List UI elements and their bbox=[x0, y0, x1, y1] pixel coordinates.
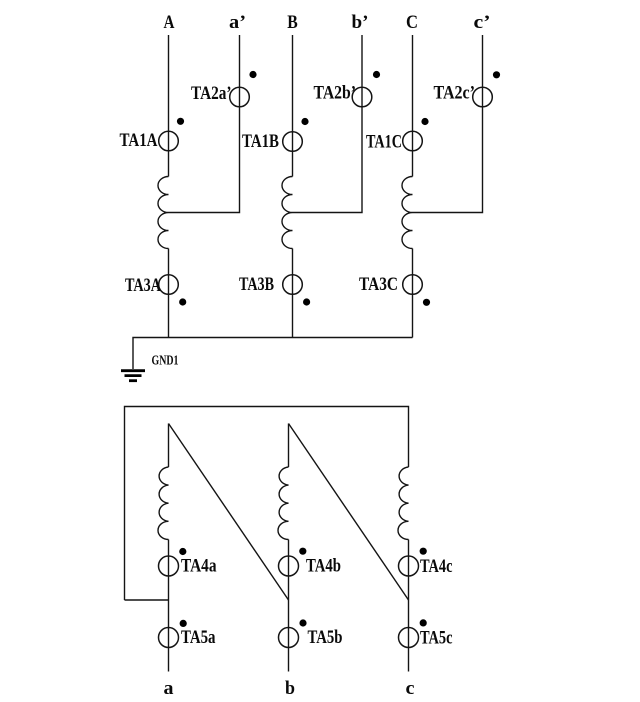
CT TA2b' circle bbox=[352, 87, 372, 107]
svg-text:GND1: GND1 bbox=[152, 354, 179, 369]
CT TA1C polarity dot bbox=[421, 118, 428, 125]
svg-text:a’: a’ bbox=[229, 12, 246, 33]
svg-text:c’: c’ bbox=[474, 12, 491, 33]
CT TA3A polarity dot bbox=[179, 298, 186, 305]
CT TA3A circle bbox=[159, 275, 179, 295]
wire a' with tap to coil A bbox=[169, 35, 240, 213]
CT TA5b polarity dot bbox=[299, 619, 306, 626]
svg-text:b’: b’ bbox=[352, 12, 369, 33]
CT TA4c polarity dot bbox=[420, 548, 427, 555]
svg-text:c: c bbox=[406, 678, 415, 699]
svg-text:A: A bbox=[164, 12, 175, 33]
CT TA5a polarity dot bbox=[180, 620, 187, 627]
svg-text:TA5b: TA5b bbox=[308, 627, 343, 648]
CT TA4b polarity dot bbox=[299, 548, 306, 555]
CT TA3B polarity dot bbox=[303, 298, 310, 305]
svg-text:TA3A: TA3A bbox=[125, 275, 161, 296]
wire phase c coil to bottom bbox=[408, 540, 410, 672]
wire phase A lower bbox=[168, 249, 170, 338]
CT TA2c' circle bbox=[473, 87, 493, 107]
svg-text:TA2b’: TA2b’ bbox=[314, 83, 357, 104]
CT TA4b circle bbox=[279, 556, 299, 576]
CT TA2b' polarity dot bbox=[373, 71, 380, 78]
svg-text:TA3C: TA3C bbox=[359, 274, 398, 295]
svg-text:TA4b: TA4b bbox=[306, 556, 341, 577]
ground GND1 bar 1 bbox=[121, 369, 145, 372]
wire phase B upper bbox=[292, 35, 294, 177]
CT TA2a' circle bbox=[230, 87, 250, 107]
CT TA3C circle bbox=[403, 275, 423, 295]
CT TA5a circle bbox=[159, 628, 179, 648]
svg-text:TA3B: TA3B bbox=[239, 274, 274, 295]
CT TA4c circle bbox=[399, 556, 419, 576]
CT TA1C circle bbox=[403, 131, 423, 151]
CT TA3C polarity dot bbox=[423, 299, 430, 306]
CT TA5b circle bbox=[279, 628, 299, 648]
svg-text:TA1C: TA1C bbox=[366, 132, 402, 153]
wire diagonal a-top to b-junction bbox=[169, 424, 289, 601]
svg-text:C: C bbox=[406, 12, 418, 33]
inductor winding phase a bbox=[158, 467, 169, 540]
CT TA1A circle bbox=[159, 131, 179, 151]
inductor winding phase A bbox=[158, 177, 169, 249]
wire secondary left connector to phase a bbox=[125, 599, 169, 601]
svg-text:TA5a: TA5a bbox=[181, 627, 216, 648]
inductor winding phase C bbox=[402, 177, 413, 249]
svg-text:TA4c: TA4c bbox=[420, 556, 453, 577]
inductor winding phase b bbox=[278, 467, 289, 540]
wire secondary top bus bbox=[125, 407, 409, 601]
wire diagonal b-top to c-junction bbox=[289, 424, 409, 601]
CT TA4a polarity dot bbox=[179, 548, 186, 555]
wire phase b coil to bottom bbox=[288, 540, 290, 672]
svg-text:a: a bbox=[164, 678, 175, 699]
wire phase A upper bbox=[168, 35, 170, 177]
inductor winding phase c bbox=[398, 467, 408, 540]
CT TA2c' polarity dot bbox=[493, 71, 500, 78]
wire phase C upper bbox=[412, 35, 414, 177]
CT TA5c circle bbox=[399, 628, 419, 648]
svg-text:TA2c’: TA2c’ bbox=[434, 83, 476, 104]
CT TA3B circle bbox=[283, 275, 303, 295]
CT TA5c polarity dot bbox=[420, 619, 427, 626]
CT TA4a circle bbox=[159, 556, 179, 576]
CT TA1B circle bbox=[283, 132, 303, 152]
wire phase C lower bbox=[412, 249, 414, 338]
svg-text:TA4a: TA4a bbox=[181, 556, 217, 577]
wire phase a coil to bottom bbox=[168, 540, 170, 672]
ground GND1 bar 3 bbox=[129, 379, 137, 382]
svg-text:TA1A: TA1A bbox=[120, 130, 158, 151]
svg-text:TA5c: TA5c bbox=[420, 628, 453, 649]
CT TA1A polarity dot bbox=[177, 118, 184, 125]
wire phase B lower bbox=[292, 249, 294, 338]
svg-text:b: b bbox=[285, 678, 295, 699]
CT TA1B polarity dot bbox=[301, 118, 308, 125]
svg-text:B: B bbox=[287, 12, 298, 33]
wire b' with tap to coil B bbox=[293, 35, 363, 213]
wire c' with tap to coil C bbox=[413, 35, 483, 213]
inductor winding phase B bbox=[282, 177, 293, 249]
wire phase a apex to coil bbox=[168, 424, 170, 468]
CT TA2a' polarity dot bbox=[249, 71, 256, 78]
svg-text:TA2a’: TA2a’ bbox=[191, 83, 232, 104]
wire neutral bus bbox=[133, 338, 413, 370]
wire phase b apex to coil bbox=[288, 424, 290, 468]
svg-text:TA1B: TA1B bbox=[242, 131, 279, 152]
ground GND1 bar 2 bbox=[125, 374, 142, 377]
